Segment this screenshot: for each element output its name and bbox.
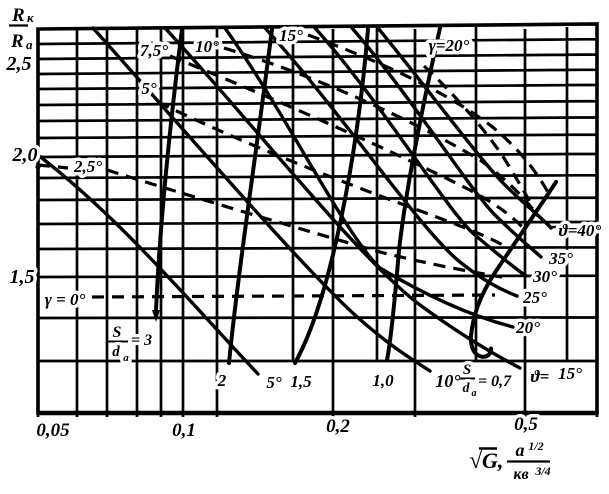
svg-text:a: a [516, 440, 525, 460]
svg-text:0,5: 0,5 [514, 414, 538, 435]
svg-text:G,: G, [482, 448, 503, 473]
svg-text:d: d [112, 344, 120, 360]
svg-text:10°: 10° [195, 37, 219, 56]
svg-text:25°: 25° [522, 288, 547, 307]
svg-text:0,2: 0,2 [326, 416, 350, 437]
svg-text:S: S [463, 362, 471, 378]
svg-text:2,5°: 2,5° [73, 157, 102, 176]
svg-text:7,5°: 7,5° [140, 41, 168, 60]
svg-text:10°: 10° [435, 371, 461, 391]
svg-text:√: √ [469, 448, 483, 474]
svg-text:а: а [123, 352, 129, 364]
svg-text:= 3: = 3 [131, 332, 152, 349]
svg-text:R: R [11, 5, 25, 26]
svg-text:0,1: 0,1 [172, 420, 196, 441]
svg-text:1,5: 1,5 [10, 266, 35, 288]
svg-text:2,5: 2,5 [6, 53, 32, 75]
svg-text:20°: 20° [515, 318, 540, 337]
svg-text:3/4: 3/4 [534, 464, 550, 478]
svg-text:ϑ=40°: ϑ=40° [559, 221, 602, 240]
svg-text:S: S [113, 324, 122, 341]
svg-text:а: а [472, 388, 477, 399]
svg-text:а: а [26, 37, 33, 52]
svg-text:d: d [463, 381, 471, 396]
svg-text:R: R [10, 31, 24, 52]
svg-text:кв: кв [513, 466, 528, 483]
svg-text:1/2: 1/2 [528, 439, 543, 453]
svg-text:15°: 15° [279, 26, 303, 45]
svg-text:γ=20°: γ=20° [429, 36, 470, 55]
svg-text:γ = 0°: γ = 0° [45, 290, 86, 309]
svg-text:5°: 5° [141, 79, 157, 98]
svg-text:0,05: 0,05 [36, 420, 70, 441]
svg-text:15°: 15° [558, 364, 582, 383]
svg-text:= 0,7: = 0,7 [478, 373, 512, 390]
svg-text:5°: 5° [266, 373, 282, 392]
svg-text:1,0: 1,0 [372, 371, 394, 390]
svg-text:ϑ=: ϑ= [531, 367, 550, 386]
svg-text:2: 2 [217, 371, 227, 390]
svg-text:30°: 30° [532, 267, 557, 286]
svg-text:2,0: 2,0 [12, 144, 38, 166]
svg-text:к: к [27, 10, 34, 25]
svg-text:1,5: 1,5 [290, 372, 312, 391]
svg-text:35°: 35° [548, 249, 573, 268]
